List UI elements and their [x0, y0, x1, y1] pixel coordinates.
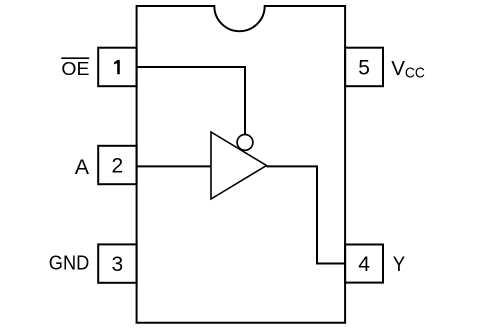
svg-text:3: 3: [112, 253, 124, 276]
svg-text:4: 4: [358, 253, 370, 276]
svg-text:GND: GND: [49, 252, 90, 274]
svg-text:Y: Y: [393, 253, 405, 276]
svg-text:CC: CC: [405, 65, 425, 82]
svg-text:A: A: [75, 155, 90, 179]
svg-text:V: V: [391, 57, 405, 80]
svg-text:2: 2: [112, 154, 124, 177]
svg-text:5: 5: [358, 57, 370, 80]
svg-text:OE: OE: [61, 58, 89, 79]
